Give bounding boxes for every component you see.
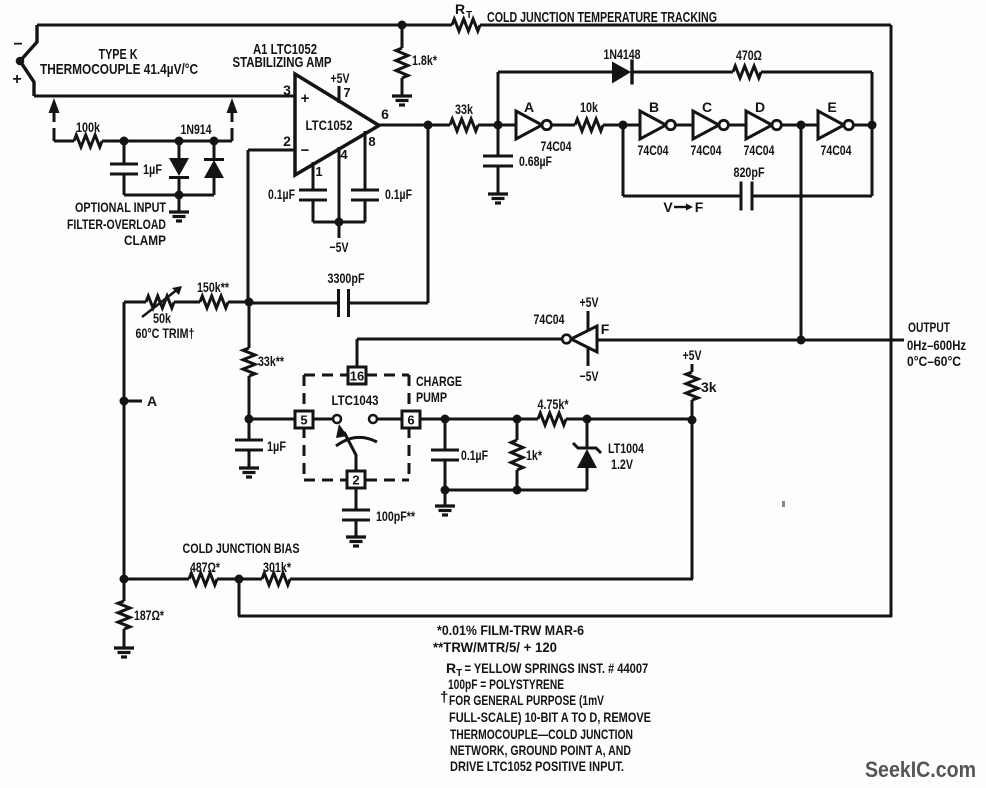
junction 1k bottom — [513, 486, 522, 495]
junction clamp-C1 — [120, 137, 129, 146]
wire right border — [890, 25, 893, 617]
junction LT1004 top — [583, 415, 592, 424]
svg-text:F: F — [601, 321, 610, 337]
svg-text:1: 1 — [315, 164, 322, 179]
resistor 301k* — [262, 573, 290, 585]
svg-text:−5V: −5V — [580, 368, 599, 384]
svg-text:CHARGE: CHARGE — [416, 373, 462, 389]
svg-text:470Ω: 470Ω — [736, 47, 762, 63]
svg-text:1µF: 1µF — [267, 438, 286, 454]
svg-text:100pF = POLYSTYRENE: 100pF = POLYSTYRENE — [448, 676, 564, 692]
wire E output — [853, 124, 872, 127]
switch contact pin6 side — [369, 415, 377, 423]
ground 100pF — [346, 535, 366, 538]
inverter F 74C04 — [571, 326, 597, 352]
wire trim rail — [124, 301, 146, 304]
capacitor 0.1uF right — [351, 189, 379, 192]
svg-text:0°C–60°C: 0°C–60°C — [907, 353, 961, 369]
svg-text:1.2V: 1.2V — [611, 456, 633, 472]
capacitor 3300pF — [249, 302, 338, 305]
svg-text:2: 2 — [352, 473, 359, 488]
junction 3k node — [688, 416, 697, 425]
svg-text:100pF**: 100pF** — [376, 508, 415, 524]
junction LTC1043 pin5 node — [245, 415, 254, 424]
svg-text:LTC1052: LTC1052 — [306, 117, 353, 133]
svg-text:NETWORK, GROUND POINT A, AND: NETWORK, GROUND POINT A, AND — [450, 742, 631, 758]
resistor 10k — [551, 124, 575, 127]
svg-text:A: A — [524, 99, 534, 115]
svg-text:0Hz–600Hz: 0Hz–600Hz — [907, 337, 966, 353]
wire 820pF rail — [623, 195, 741, 198]
svg-text:0.1µF: 0.1µF — [461, 447, 488, 463]
svg-text:+5V: +5V — [580, 294, 599, 310]
resistor 470ohm — [733, 66, 761, 78]
svg-text:+: + — [301, 90, 310, 107]
wire feedback vertical — [427, 125, 430, 303]
svg-text:0.1µF: 0.1µF — [268, 186, 295, 202]
svg-text:1k*: 1k* — [526, 447, 542, 463]
inverter B 74C04 — [623, 124, 640, 127]
svg-text:5: 5 — [300, 413, 307, 428]
junction 33k-0.68uF — [494, 121, 503, 130]
resistor 187ohm* — [123, 579, 126, 601]
svg-text:B: B — [649, 99, 659, 115]
svg-text:4: 4 — [340, 147, 348, 162]
svg-text:74C04: 74C04 — [541, 138, 572, 154]
wire feedback up — [497, 72, 500, 125]
svg-text:50k: 50k — [153, 310, 171, 326]
resistor 33k** — [248, 303, 251, 348]
resistor 150k** — [200, 296, 228, 308]
svg-text:1N914: 1N914 — [181, 121, 212, 137]
capacitor 0.1uF left — [299, 189, 327, 192]
ground clamp — [178, 195, 181, 212]
svg-text:33k**: 33k** — [258, 353, 284, 369]
svg-text:74C04: 74C04 — [638, 142, 669, 158]
svg-text:487Ω*: 487Ω* — [190, 559, 220, 575]
svg-text:3k: 3k — [701, 379, 717, 395]
diode D1 1N914 — [178, 141, 181, 158]
svg-text:D: D — [755, 99, 765, 115]
svg-text:0.1µF: 0.1µF — [385, 186, 412, 202]
junction top rail 1.8k — [398, 21, 407, 30]
ground 1.8k — [392, 94, 412, 97]
resistor 33k — [450, 119, 478, 131]
svg-text:1.8k*: 1.8k* — [412, 52, 437, 68]
pin 16 box — [356, 340, 359, 367]
resistor 100k — [74, 135, 102, 147]
svg-text:*0.01% FILM-TRW MAR-6: *0.01% FILM-TRW MAR-6 — [437, 622, 584, 638]
svg-text:100k: 100k — [76, 119, 100, 135]
inverter A 74C04 — [498, 124, 516, 127]
switch wiper arm — [344, 432, 356, 471]
resistor 4.75k* — [538, 413, 566, 425]
wire clamp rail — [54, 140, 74, 143]
ground 1uF pin5 — [239, 466, 259, 469]
wire 820pF right rise — [871, 125, 874, 196]
wire op-amp -input — [248, 149, 295, 152]
junction D-E output tap — [797, 121, 806, 130]
svg-text:SeekIC.com: SeekIC.com — [865, 757, 976, 782]
svg-text:3: 3 — [283, 82, 291, 98]
svg-text:60°C TRIM†: 60°C TRIM† — [136, 325, 195, 341]
svg-text:OUTPUT: OUTPUT — [908, 319, 950, 335]
arrow input right — [227, 98, 238, 113]
svg-text:+5V: +5V — [683, 347, 702, 363]
wire F output to pin16 — [357, 338, 562, 341]
svg-text:+: + — [12, 71, 21, 88]
svg-text:187Ω*: 187Ω* — [134, 607, 164, 623]
pin 7 +5V — [338, 86, 341, 103]
svg-text:A: A — [147, 393, 157, 409]
wire 820pF left drop — [622, 125, 625, 196]
svg-text:1µF: 1µF — [143, 161, 162, 177]
capacitor 100pF** — [355, 488, 358, 510]
wire clamp bottom — [124, 194, 214, 197]
svg-text:1N4148: 1N4148 — [604, 46, 641, 62]
junction clamp ground — [175, 191, 184, 200]
resistor 487ohm* — [189, 573, 217, 585]
ground 187ohm — [114, 646, 134, 649]
arrow input left — [49, 98, 60, 113]
junction trim node — [245, 298, 254, 307]
svg-text:3300pF: 3300pF — [328, 270, 365, 286]
wire top rail — [37, 24, 452, 27]
capacitor 0.68uF — [497, 125, 500, 156]
svg-text:F: F — [695, 199, 704, 215]
svg-text:150k**: 150k** — [197, 279, 229, 295]
svg-text:820pF: 820pF — [734, 164, 765, 180]
artifact mark — [782, 501, 785, 507]
svg-text:COLD JUNCTION TEMPERATURE TRAC: COLD JUNCTION TEMPERATURE TRACKING — [487, 9, 717, 26]
svg-text:6: 6 — [407, 413, 414, 428]
svg-text:10k: 10k — [580, 99, 598, 115]
wire D to E — [781, 124, 818, 127]
wire bias rail — [124, 578, 189, 581]
pin 4 — [338, 147, 341, 222]
LTC1043 dashed box — [304, 375, 409, 480]
wire 3k drop — [691, 420, 694, 579]
svg-text:7: 7 — [343, 85, 350, 100]
junction clamp-D1 — [175, 137, 184, 146]
svg-text:FOR GENERAL PURPOSE (1mV: FOR GENERAL PURPOSE (1mV — [449, 692, 604, 708]
pin 6 box — [402, 411, 420, 428]
svg-text:**TRW/MTR/5/ + 120: **TRW/MTR/5/ + 120 — [433, 639, 557, 655]
thermocouple TC1 type K — [20, 25, 37, 96]
svg-text:8: 8 — [368, 134, 375, 149]
svg-text:FULL-SCALE) 10-BIT A TO D, REM: FULL-SCALE) 10-BIT A TO D, REMOVE — [449, 709, 651, 725]
diode 1N4148 — [612, 62, 631, 84]
svg-text:33k: 33k — [455, 101, 473, 117]
svg-text:FILTER-OVERLOAD: FILTER-OVERLOAD — [67, 216, 166, 232]
svg-text:DRIVE LTC1052 POSITIVE INPUT.: DRIVE LTC1052 POSITIVE INPUT. — [450, 758, 624, 774]
svg-text:THERMOCOUPLE 41.4µV/°C: THERMOCOUPLE 41.4µV/°C — [40, 61, 198, 78]
svg-text:+5V: +5V — [331, 70, 350, 86]
junction output feedback — [424, 121, 433, 130]
junction output line — [797, 336, 806, 345]
svg-text:STABILIZING AMP: STABILIZING AMP — [233, 54, 332, 71]
svg-text:COLD JUNCTION BIAS: COLD JUNCTION BIAS — [183, 540, 300, 556]
svg-text:74C04: 74C04 — [534, 311, 565, 327]
resistor RT — [452, 19, 480, 31]
svg-text:CLAMP: CLAMP — [124, 232, 166, 248]
junction bias mid — [235, 575, 244, 584]
junction -5V — [335, 218, 344, 227]
svg-text:LTC1043: LTC1043 — [332, 392, 379, 408]
inverter D 74C04 — [728, 124, 746, 127]
pin 2 box — [347, 471, 365, 488]
svg-text:74C04: 74C04 — [691, 142, 722, 158]
junction 0.1uF bottom — [441, 486, 450, 495]
potentiometer 50k 60C trim — [146, 296, 174, 308]
capacitor 820pF — [740, 182, 743, 211]
wire -5V rail — [313, 221, 365, 224]
ground 0.68uF — [488, 192, 508, 195]
svg-text:V: V — [663, 199, 673, 215]
wire bottom frame — [238, 615, 892, 618]
junction 1k top — [513, 415, 522, 424]
resistor 3k — [691, 364, 694, 372]
capacitor C1 1uF — [123, 141, 126, 164]
wire oscillator output drop — [800, 125, 803, 341]
inverter C 74C04 — [675, 124, 693, 127]
svg-text:−: − — [13, 36, 22, 53]
zener LT1004 1.2V — [586, 419, 589, 448]
op-amp A1 LTC1052 — [295, 74, 379, 175]
wire left branch vertical — [123, 302, 126, 577]
diode D2 1N914 — [213, 141, 216, 159]
svg-text:4.75k*: 4.75k* — [538, 396, 569, 412]
svg-text:0.68µF: 0.68µF — [519, 153, 552, 169]
pin -5V F — [587, 348, 590, 366]
svg-text:PUMP: PUMP — [416, 389, 447, 405]
svg-text:301k*: 301k* — [263, 559, 291, 575]
svg-text:C: C — [702, 99, 712, 115]
wire feedback top left — [498, 71, 613, 74]
svg-text:74C04: 74C04 — [744, 142, 775, 158]
junction clamp-D2 — [210, 137, 219, 146]
junction 0.1uF top — [441, 415, 450, 424]
svg-text:6: 6 — [381, 106, 389, 122]
svg-text:2: 2 — [283, 133, 291, 149]
wire diode to 470 — [632, 71, 733, 74]
svg-text:−5V: −5V — [330, 239, 349, 255]
wire thermocouple to op-amp +input — [34, 95, 295, 98]
wire F input / output line — [597, 339, 904, 342]
pin 5 box — [249, 418, 295, 421]
switch contact pin5 side — [313, 418, 332, 421]
wire op-amp output — [379, 124, 450, 127]
capacitor 0.1uF pump — [444, 419, 447, 450]
inverter E 74C04 — [818, 111, 844, 139]
pin 8 — [364, 131, 367, 190]
pin +5V F — [587, 311, 590, 331]
svg-text:OPTIONAL INPUT: OPTIONAL INPUT — [75, 199, 166, 215]
junction E output — [868, 121, 877, 130]
pin 1 — [312, 162, 315, 190]
svg-text:LT1004: LT1004 — [608, 440, 644, 456]
svg-text:E: E — [827, 99, 836, 115]
resistor 1.8k* — [401, 25, 404, 48]
wire 470 to E output — [761, 71, 872, 74]
ground 0.1uF pump — [444, 490, 447, 505]
svg-text:THERMOCOUPLE—COLD JUNCTION: THERMOCOUPLE—COLD JUNCTION — [450, 726, 633, 742]
svg-text:T: T — [466, 10, 472, 21]
svg-text:R: R — [455, 1, 465, 17]
resistor 1k* — [516, 419, 519, 440]
svg-text:16: 16 — [350, 369, 364, 384]
node A — [120, 397, 129, 406]
svg-text:−: − — [301, 142, 310, 159]
svg-text:†: † — [440, 689, 448, 706]
wire pin6 rail — [445, 418, 538, 421]
capacitor 1uF pin5 — [248, 419, 251, 440]
junction bias left — [120, 575, 129, 584]
junction 10k-B — [619, 121, 628, 130]
wire reference bottom rail — [445, 489, 587, 492]
svg-text:74C04: 74C04 — [821, 142, 852, 158]
